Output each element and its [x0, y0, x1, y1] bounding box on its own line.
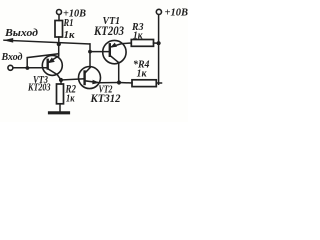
svg-text:1к: 1к — [66, 93, 75, 104]
svg-text:Вход: Вход — [1, 52, 23, 63]
svg-text:Выход: Выход — [4, 28, 38, 39]
svg-text:1к: 1к — [133, 30, 143, 41]
svg-text:R1: R1 — [63, 18, 74, 29]
svg-text:КТ312: КТ312 — [90, 91, 121, 105]
svg-text:1к: 1к — [137, 69, 148, 80]
svg-text:1к: 1к — [64, 30, 76, 41]
svg-text:КТ203: КТ203 — [27, 82, 50, 93]
svg-text:КТ203: КТ203 — [93, 24, 124, 38]
svg-text:+10В: +10В — [165, 6, 189, 18]
